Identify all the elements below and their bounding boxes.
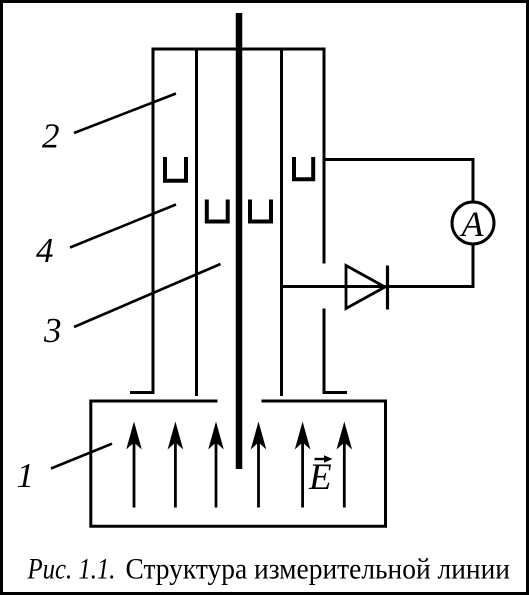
svg-text:E: E: [308, 457, 332, 498]
svg-text:2: 2: [42, 117, 60, 156]
svg-text:3: 3: [43, 311, 62, 350]
svg-text:1: 1: [17, 456, 35, 495]
svg-text:Рис. 1.1.: Рис. 1.1.: [27, 553, 116, 586]
svg-text:4: 4: [36, 231, 54, 270]
svg-text:Структура измерительной линии: Структура измерительной линии: [126, 553, 511, 586]
svg-text:A: A: [460, 204, 485, 244]
